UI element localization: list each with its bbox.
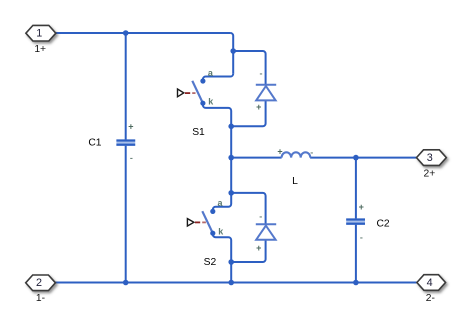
capacitor C1 — [116, 122, 135, 163]
svg-text:+: + — [256, 243, 261, 253]
node S2 bottom junction — [228, 259, 234, 265]
wire top rail — [56, 32, 231, 34]
node bottom rail S2 junction — [228, 280, 234, 286]
wire C2 branch vertical — [355, 158, 357, 283]
svg-text:S1: S1 — [192, 127, 205, 138]
wire bottom rail — [55, 282, 417, 284]
node S2 top junction — [228, 190, 234, 196]
svg-text:1+: 1+ — [34, 44, 46, 55]
wire S2 k nub and down — [213, 233, 231, 262]
svg-text:S2: S2 — [204, 257, 217, 268]
wire S2 diode bottom branch — [231, 240, 265, 262]
switch S1 terminal k dot — [200, 101, 205, 106]
svg-text:k: k — [218, 227, 224, 237]
svg-text:3: 3 — [427, 152, 433, 164]
port 4 hexagon — [417, 275, 446, 291]
svg-text:+: + — [359, 202, 364, 212]
wire mid vertical S1 to mid rail — [230, 126, 232, 157]
svg-text:+: + — [128, 122, 133, 132]
wire S1 diode top branch — [233, 51, 265, 84]
node S1 bottom junction — [228, 124, 234, 130]
svg-text:-: - — [260, 68, 263, 78]
svg-text:-: - — [360, 233, 363, 243]
node S1 top junction — [230, 48, 236, 54]
node C2 bottom junction — [353, 280, 359, 286]
capacitor C2 — [346, 202, 365, 243]
svg-text:1-: 1- — [36, 293, 45, 304]
switch S2 control triangle — [187, 219, 194, 226]
svg-text:4: 4 — [427, 277, 433, 289]
svg-text:2: 2 — [36, 277, 42, 289]
svg-text:1: 1 — [36, 28, 42, 40]
port 1 hexagon — [26, 25, 56, 41]
switch S1 lever — [192, 81, 203, 103]
node mid rail junction — [228, 155, 234, 161]
diode D2 — [256, 224, 276, 239]
switch S2 terminal a dot — [210, 209, 215, 214]
node C2 top junction — [353, 155, 359, 161]
inductor L coil — [282, 152, 311, 157]
wire S2 to bottom rail — [230, 262, 232, 283]
wire S2 a-side — [213, 193, 231, 212]
svg-text:2+: 2+ — [424, 169, 436, 180]
svg-text:2-: 2- — [426, 293, 435, 304]
svg-text:C1: C1 — [88, 137, 101, 148]
wire S1 diode bottom branch — [231, 100, 265, 126]
switch S2 control dashed line — [195, 221, 200, 223]
svg-text:-: - — [259, 211, 262, 221]
switch S1 terminal a dot — [200, 78, 205, 83]
wire C1 branch vertical — [125, 33, 127, 283]
port 2 hexagon — [26, 275, 56, 291]
switch S1 control dashed line — [185, 92, 190, 94]
node C1 top junction — [123, 30, 129, 36]
wire S2 diode top branch — [231, 193, 265, 224]
wire S1 a-side vertical — [230, 33, 233, 74]
diode D1 — [256, 85, 276, 101]
svg-text:+: + — [256, 102, 261, 112]
wire mid rail left of inductor — [231, 157, 281, 159]
svg-text:L: L — [292, 176, 298, 187]
switch S2 terminal k dot — [210, 231, 215, 236]
wire S1 a horizontal — [203, 74, 233, 81]
switch S2 lever — [202, 211, 213, 233]
port 3 hexagon — [417, 150, 447, 166]
svg-text:+: + — [277, 147, 282, 157]
switch S1 control triangle — [178, 89, 184, 97]
svg-text:-: - — [310, 147, 313, 157]
wire S1 k nub and down — [203, 103, 231, 126]
svg-text:C2: C2 — [377, 219, 390, 230]
wire mid vertical to S2 — [230, 158, 232, 193]
svg-text:-: - — [130, 153, 133, 163]
node C1 bottom junction — [123, 280, 129, 286]
wire mid rail right of inductor to port 3 — [310, 157, 416, 159]
svg-text:k: k — [208, 97, 214, 107]
